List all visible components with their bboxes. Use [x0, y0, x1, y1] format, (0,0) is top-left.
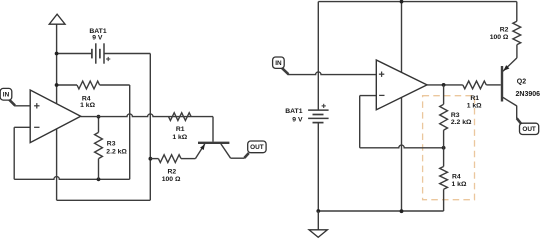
svg-text:Q2: Q2	[517, 79, 526, 86]
svg-text:1 kΩ: 1 kΩ	[467, 102, 482, 109]
svg-text:1 kΩ: 1 kΩ	[80, 102, 95, 109]
svg-text:2.2 kΩ: 2.2 kΩ	[106, 148, 127, 155]
svg-text:R3: R3	[451, 112, 460, 119]
svg-text:OUT: OUT	[522, 126, 536, 133]
svg-text:OUT: OUT	[250, 144, 264, 151]
svg-text:9 V: 9 V	[292, 117, 303, 124]
svg-text:R2: R2	[167, 169, 176, 176]
svg-text:1 kΩ: 1 kΩ	[452, 181, 467, 188]
svg-text:R1: R1	[176, 126, 185, 133]
svg-text:1 kΩ: 1 kΩ	[172, 134, 187, 141]
svg-text:2N3906: 2N3906	[516, 91, 540, 98]
svg-text:R3: R3	[107, 141, 116, 148]
svg-text:BAT1: BAT1	[285, 108, 302, 115]
svg-text:IN: IN	[3, 92, 10, 99]
svg-text:100 Ω: 100 Ω	[162, 176, 181, 183]
svg-text:100 Ω: 100 Ω	[490, 34, 509, 41]
svg-text:R4: R4	[452, 174, 461, 181]
svg-text:9 V: 9 V	[92, 34, 103, 41]
svg-text:R1: R1	[470, 95, 479, 102]
svg-text:R2: R2	[500, 26, 509, 33]
svg-text:IN: IN	[275, 60, 282, 67]
svg-text:2.2 kΩ: 2.2 kΩ	[451, 119, 472, 126]
